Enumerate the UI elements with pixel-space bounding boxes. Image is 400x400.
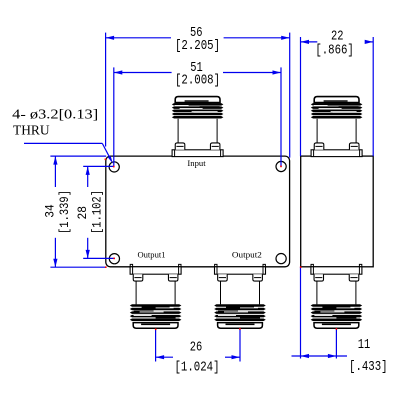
svg-text:[2.008]: [2.008] — [175, 73, 220, 88]
svg-text:[.866]: [.866] — [315, 43, 354, 58]
svg-text:[1.024]: [1.024] — [175, 361, 220, 376]
svg-text:[.433]: [.433] — [349, 360, 388, 375]
svg-text:Output1: Output1 — [138, 250, 166, 259]
svg-text:11: 11 — [358, 338, 371, 353]
svg-text:Input: Input — [187, 159, 206, 168]
svg-text:[2.205]: [2.205] — [175, 39, 220, 54]
svg-text:26: 26 — [190, 341, 203, 356]
svg-text:Output2: Output2 — [232, 250, 262, 259]
svg-text:THRU: THRU — [13, 123, 50, 138]
svg-text:34: 34 — [44, 204, 58, 218]
svg-text:[1.339]: [1.339] — [58, 190, 72, 234]
svg-text:28: 28 — [76, 206, 90, 220]
svg-text:4- ø3.2[0.13]: 4- ø3.2[0.13] — [12, 107, 98, 122]
svg-text:[1.102]: [1.102] — [90, 190, 104, 234]
